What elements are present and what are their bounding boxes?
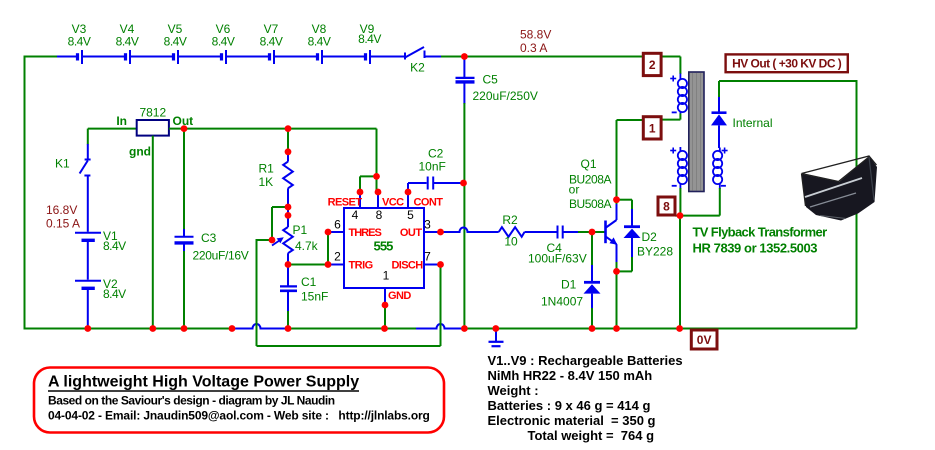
svg-text:Internal: Internal xyxy=(733,116,773,130)
svg-text:6: 6 xyxy=(334,218,341,232)
svg-text:Electronic material = 350 g: Electronic material = 350 g xyxy=(488,413,656,428)
svg-text:C2: C2 xyxy=(428,147,444,161)
svg-text:5: 5 xyxy=(407,208,414,222)
svg-text:K2: K2 xyxy=(410,61,425,75)
svg-text:R1: R1 xyxy=(259,162,275,176)
svg-text:C3: C3 xyxy=(201,231,217,245)
svg-text:58.8V: 58.8V xyxy=(520,28,551,42)
svg-text:8.4V: 8.4V xyxy=(103,239,126,253)
svg-text:P1: P1 xyxy=(293,223,308,237)
svg-text:7: 7 xyxy=(424,250,431,264)
svg-text:16.8V: 16.8V xyxy=(46,203,77,217)
svg-text:OUT: OUT xyxy=(400,227,422,239)
svg-text:Q1: Q1 xyxy=(580,157,596,171)
svg-text:8.4V: 8.4V xyxy=(260,35,283,49)
svg-text:8: 8 xyxy=(376,208,383,222)
svg-text:R2: R2 xyxy=(502,213,518,227)
svg-text:TV Flyback Transformer: TV Flyback Transformer xyxy=(693,225,828,240)
svg-text:8.4V: 8.4V xyxy=(103,287,126,301)
svg-text:BU508A: BU508A xyxy=(569,197,611,211)
svg-text:8.4V: 8.4V xyxy=(164,35,187,49)
svg-text:8.4V: 8.4V xyxy=(308,35,331,49)
svg-text:2: 2 xyxy=(649,58,656,72)
svg-text:7812: 7812 xyxy=(139,106,166,120)
svg-text:15nF: 15nF xyxy=(301,290,328,304)
svg-text:100uF/63V: 100uF/63V xyxy=(528,252,587,266)
svg-text:1N4007: 1N4007 xyxy=(541,295,583,309)
svg-text:C5: C5 xyxy=(483,73,499,87)
svg-text:555: 555 xyxy=(374,239,394,254)
svg-text:K1: K1 xyxy=(55,157,70,171)
svg-text:0V: 0V xyxy=(697,333,712,347)
svg-text:Out: Out xyxy=(173,114,194,128)
svg-text:8.4V: 8.4V xyxy=(68,35,91,49)
svg-text:04-04-02 - Email: Jnaudin509@a: 04-04-02 - Email: Jnaudin509@aol.com - W… xyxy=(48,409,430,423)
svg-text:4.7k: 4.7k xyxy=(295,239,319,253)
svg-text:Total weight = 764 g: Total weight = 764 g xyxy=(528,428,655,443)
svg-text:V1..V9 : Rechargeable Batterie: V1..V9 : Rechargeable Batteries xyxy=(488,353,683,368)
svg-text:2: 2 xyxy=(334,250,341,264)
svg-text:Based on the Saviour's design: Based on the Saviour's design - diagram … xyxy=(48,394,335,408)
svg-text:THRES: THRES xyxy=(349,227,382,239)
svg-text:1: 1 xyxy=(383,269,390,283)
svg-text:C1: C1 xyxy=(301,275,317,289)
svg-text:D1: D1 xyxy=(561,278,577,292)
svg-text:CONT: CONT xyxy=(414,197,444,209)
svg-text:220uF/16V: 220uF/16V xyxy=(193,249,249,263)
svg-text:4: 4 xyxy=(352,208,359,222)
svg-text:HR 7839 or 1352.5003: HR 7839 or 1352.5003 xyxy=(693,241,818,256)
svg-text:1: 1 xyxy=(649,121,656,135)
svg-text:Batteries : 9 x 46 g = 414 g: Batteries : 9 x 46 g = 414 g xyxy=(488,398,651,413)
svg-text:8: 8 xyxy=(663,200,670,214)
svg-text:Weight :: Weight : xyxy=(488,383,539,398)
svg-text:VCC: VCC xyxy=(382,197,404,209)
svg-text:NiMh HR22 - 8.4V 150 mAh: NiMh HR22 - 8.4V 150 mAh xyxy=(488,368,653,383)
svg-text:8.4V: 8.4V xyxy=(116,35,139,49)
svg-text:GND: GND xyxy=(388,290,411,302)
svg-text:10nF: 10nF xyxy=(419,160,446,174)
svg-text:TRIG: TRIG xyxy=(349,260,373,272)
svg-text:A lightweight High Voltage Pow: A lightweight High Voltage Power Supply xyxy=(48,374,359,391)
svg-text:HV Out ( +30 KV DC ): HV Out ( +30 KV DC ) xyxy=(732,56,842,70)
svg-text:0.15 A: 0.15 A xyxy=(46,217,80,231)
svg-text:220uF/250V: 220uF/250V xyxy=(473,89,538,103)
svg-text:8.4V: 8.4V xyxy=(358,32,381,46)
svg-text:8.4V: 8.4V xyxy=(212,35,235,49)
svg-text:DISCH: DISCH xyxy=(392,260,424,272)
svg-text:10: 10 xyxy=(504,235,518,249)
svg-text:gnd: gnd xyxy=(129,145,151,159)
svg-text:RESET: RESET xyxy=(328,197,363,209)
svg-text:D2: D2 xyxy=(642,230,658,244)
svg-text:or: or xyxy=(569,183,580,197)
svg-text:BY228: BY228 xyxy=(637,245,673,259)
svg-text:3: 3 xyxy=(424,218,431,232)
svg-text:0.3 A: 0.3 A xyxy=(520,41,547,55)
svg-text:1K: 1K xyxy=(259,175,274,189)
svg-text:In: In xyxy=(116,114,127,128)
